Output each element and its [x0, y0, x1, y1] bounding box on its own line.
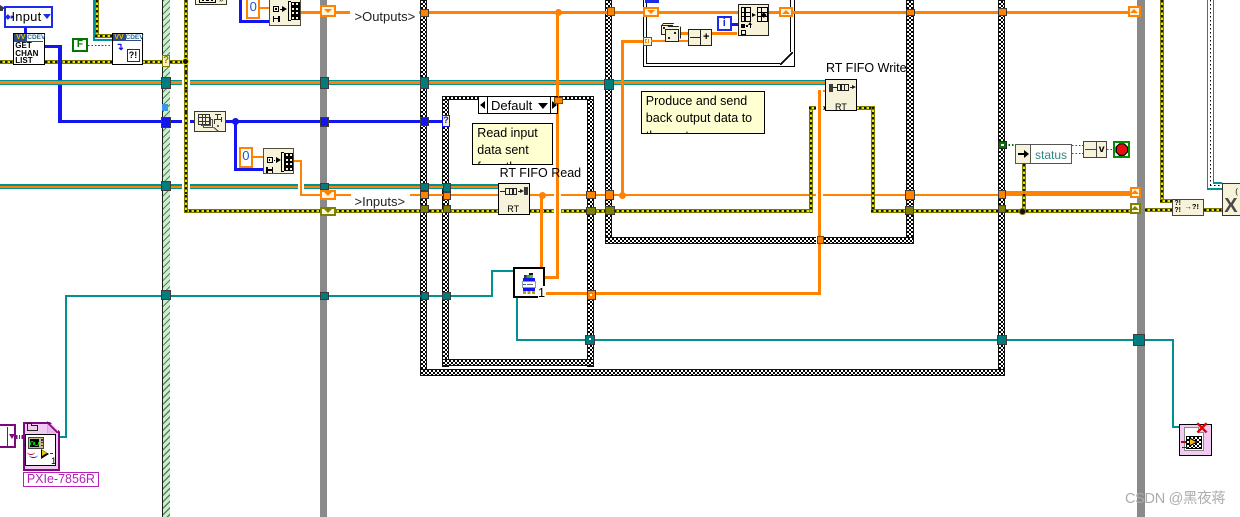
- watermark: [1125, 492, 1226, 507]
- wire: teal T3 from RW control bottom to close ref: [516, 298, 518, 340]
- node: cluster-to-array icon 1 (top): [269, 0, 301, 26]
- case structure 1 border bottom: [442, 359, 594, 366]
- wire: orange icon2b out, down to shift register: [294, 160, 303, 163]
- numeric constant 0 (mid): [239, 147, 253, 168]
- wire: orange stub 0 const to icon2b: [253, 156, 263, 158]
- outer structure border bottom: [420, 369, 1005, 376]
- tunnel: olive case1 left (error): [443, 205, 451, 214]
- label status indicator: [1015, 144, 1072, 164]
- wire: teal+error bundle entering CDEV2 from top: [95, 0, 99, 38]
- tunnel: teal square on gray bar (pair1): [320, 77, 329, 89]
- node: FPGA read/write control (case1): [513, 267, 545, 298]
- tunnel: orange outer right (W3): [998, 190, 1007, 199]
- wire: green dotted status row: [1005, 144, 1016, 146]
- wire: error cluster H2 bottom row: [184, 209, 810, 213]
- label RT FIFO Read: [500, 167, 582, 179]
- tunnel: teal square on gray bar (T2): [320, 292, 329, 300]
- tunnel: teal outer border (T2): [421, 292, 430, 300]
- wire: squiggle to PXIe ref: [16, 435, 24, 439]
- tunnel: olive case2 right (error): [905, 206, 914, 215]
- shift register: orange in (mid, >Inputs row): [320, 190, 336, 200]
- FPGA target reference PXIe-7856R: [23, 422, 60, 471]
- node: close FPGA reference X (right edge): [1222, 183, 1240, 216]
- tunnel: olive case2 left (error): [605, 206, 615, 215]
- while loop 1 right border (gray bar): [1137, 0, 1145, 517]
- icon fragment (blue, cut at top edge): [645, 0, 660, 3]
- label >Outputs>: [350, 6, 419, 25]
- node: Or primitive: [1083, 141, 1107, 157]
- outer structure border right: [998, 0, 1005, 376]
- boolean constant F: [72, 38, 88, 52]
- wire: divide to replace-array: [712, 32, 738, 34]
- case selector Default: [478, 96, 558, 114]
- tunnel: teal square on band (T2): [161, 290, 171, 300]
- tunnel: teal case1 left (pair2): [443, 183, 451, 191]
- tunnel: orange outer border (W3): [420, 191, 429, 199]
- terminal: i (loop iteration): [717, 16, 733, 31]
- wire: error cluster H1 (GET CHAN LIST row): [0, 60, 184, 64]
- shift register: olive error in: [320, 207, 336, 216]
- comment: Produce and send back output data: [641, 91, 765, 134]
- wire: blue from GET CHAN LIST to lower row: [45, 45, 62, 48]
- node: cluster-to-array icon 2: [263, 148, 294, 175]
- tunnel: for-loop auto-index []: [643, 37, 651, 46]
- shift register: orange out (W3): [1130, 187, 1142, 198]
- wire: orange row at y192 right of outer structure: [1005, 191, 1131, 194]
- node: divide + add primitives: [688, 29, 712, 46]
- case structure 1 border right: [587, 96, 594, 367]
- tunnel: teal case1 left (T2): [442, 292, 451, 300]
- tunnel: teal outer border (pair2): [420, 183, 429, 191]
- node: random number dice (two): [660, 23, 674, 26]
- wire: orange W1 junction drop to case selector: [555, 9, 562, 16]
- case structure 1 border left: [442, 96, 449, 367]
- terminal: stop button: [1113, 141, 1130, 158]
- shift register: for-loop orange out: [779, 7, 793, 17]
- while loop 1 left border (gray bar): [320, 0, 328, 517]
- wire: error out of merge errors into close ref: [1204, 208, 1223, 212]
- wire: teal+orange pair 1 (to RT FIFO Write): [0, 80, 826, 85]
- tunnel: orange case1 left (W3): [443, 192, 451, 200]
- subVI RT FIFO Write: [825, 79, 857, 111]
- tunnel: orange case2 right (W1): [906, 9, 915, 16]
- tunnel: teal big square on right gray bar (T3): [1133, 334, 1146, 345]
- wire: orange RT FIFO Write element line (left stub + long vertical): [818, 90, 826, 93]
- conditional disable structure left border (green hatched band): [162, 0, 170, 517]
- tunnel: orange on case1 top (selector wire): [554, 97, 563, 104]
- enum constant Input: [4, 6, 53, 28]
- wire: dice to divide: [679, 32, 688, 34]
- case structure 2 border bottom: [605, 237, 914, 244]
- wire: orange from for-loop auto-index tunnel down to W3 junction: [621, 40, 645, 43]
- wire: orange vertical A from W3 junction to RW control icon: [539, 192, 546, 199]
- tunnel: teal outer right (T3): [997, 335, 1007, 345]
- node: array-of-clusters icon (partial, top edge): [195, 0, 227, 5]
- control ref constant (left edge, bottom): [0, 424, 16, 448]
- shift register: olive error out: [1130, 203, 1142, 214]
- case structure 2 border right: [906, 0, 914, 244]
- comment: Read input data sent: [472, 123, 553, 166]
- wire: auto-index to divide: [651, 40, 688, 42]
- junction: error wire dot H1/V1: [182, 58, 189, 65]
- tunnel: orange w/dot case1 right (W5): [587, 290, 597, 300]
- tunnel: orange case1 right (W3): [586, 191, 597, 199]
- tunnel: teal case2 left (pair1): [604, 79, 613, 90]
- tunnel: blue ? case1 left: [442, 115, 450, 127]
- wire: green dotted F to CDEV2: [88, 45, 112, 47]
- tunnel: blue square on gray bar: [320, 117, 329, 127]
- folder glyph: [27, 425, 38, 432]
- tunnel: teal square on band (pair1): [161, 77, 171, 89]
- wire: error V3 from top to merge errors: [1160, 0, 1164, 203]
- wire: blue top (into cluster-to-array icon 1): [239, 0, 242, 22]
- tunnel: teal outer border (pair1): [420, 77, 429, 89]
- tunnel: orange square outer border (W1): [420, 9, 429, 18]
- junction: blue dot: [232, 118, 239, 125]
- tunnel: orange case2 left (W1, solid): [607, 7, 616, 16]
- shift register: for-loop orange in: [643, 7, 659, 18]
- tunnel: olive outer right (error): [998, 205, 1006, 214]
- tunnel: ? error on disable structure: [162, 55, 171, 67]
- numeric constant 0 (top): [246, 0, 260, 19]
- tunnel: blue square on band: [161, 117, 172, 129]
- probe: light blue square on band: [162, 104, 168, 111]
- subVI CDEV clear errors: [112, 33, 143, 65]
- tunnel: orange case2 right (W3): [905, 190, 916, 200]
- wire: FPGA ref tube (top right): [1207, 0, 1215, 190]
- wire: orange W5 from RW control out to case2 bottom tunnel: [545, 292, 821, 295]
- tunnel: blue outer border: [420, 117, 429, 126]
- junction: error wire dot at status drop: [1019, 208, 1026, 215]
- wire: Input enum to GET CHAN LIST: [24, 28, 27, 34]
- label RT FIFO Write: [826, 62, 907, 74]
- shift register: orange in (top, >Outputs row): [320, 5, 336, 17]
- inner scope icon: [25, 434, 57, 466]
- wire: i terminal to replace-array: [732, 23, 738, 25]
- node: replace array subset icon: [738, 4, 770, 36]
- subVI GET CHAN LIST (CDEV): [13, 33, 45, 65]
- tunnel: orange outer right (W1): [998, 8, 1007, 16]
- for loop inner rect: [646, 0, 792, 64]
- wire: teal T2 from PXIe to RW control: [65, 295, 67, 438]
- tunnel: olive case1 right (error): [586, 207, 597, 215]
- label PXIe-7856R: [23, 472, 99, 487]
- subVI RT FIFO Read: [498, 183, 530, 215]
- mouse cursor fragment top-left: [0, 5, 5, 11]
- node: 2D-array read icon: [194, 111, 226, 132]
- tunnel: teal square on gray bar (pair2): [320, 183, 329, 190]
- for loop page curl: [780, 52, 793, 65]
- outer timed/while structure border left: [420, 0, 427, 376]
- for loop (double line) structure outer rect: [643, 0, 795, 67]
- wire: orange W1 top row: [260, 7, 269, 9]
- wire: orange W3 mid row (FIFO read line): [336, 194, 352, 197]
- wire: orange selector vertical B inside case 1: [556, 104, 559, 279]
- node: merge errors ?!->?!: [1172, 199, 1204, 216]
- tunnel: olive outer border (error): [420, 205, 429, 214]
- shift register: orange out on right gray bar (top): [1128, 6, 1141, 17]
- node: close FPGA reference (bottom right): [1179, 424, 1212, 456]
- wire: error V2 status drop: [1022, 164, 1026, 211]
- case structure 2 border left: [605, 0, 612, 244]
- tunnel: teal square on band (pair2): [161, 181, 171, 191]
- tunnel: orange case2 left (W3): [605, 190, 614, 200]
- case structure 1 border top: [442, 96, 594, 101]
- tunnel: orange case2 bottom (W5): [817, 236, 825, 244]
- tunnel: green boolean outer right: [998, 141, 1006, 149]
- tunnel: teal w/dot case1 right (T3): [585, 335, 595, 345]
- wire: blue drop from junction to cluster-to-array icon 2: [234, 121, 237, 171]
- wire: orange vertical into >Inputs shift register (crosses pair2): [300, 180, 303, 192]
- label >Inputs>: [351, 191, 410, 209]
- wire: teal+orange pair 2 (to RT FIFO Read): [0, 184, 505, 189]
- wire: error vertical V1 halo over pairs (redraw): [184, 72, 188, 90]
